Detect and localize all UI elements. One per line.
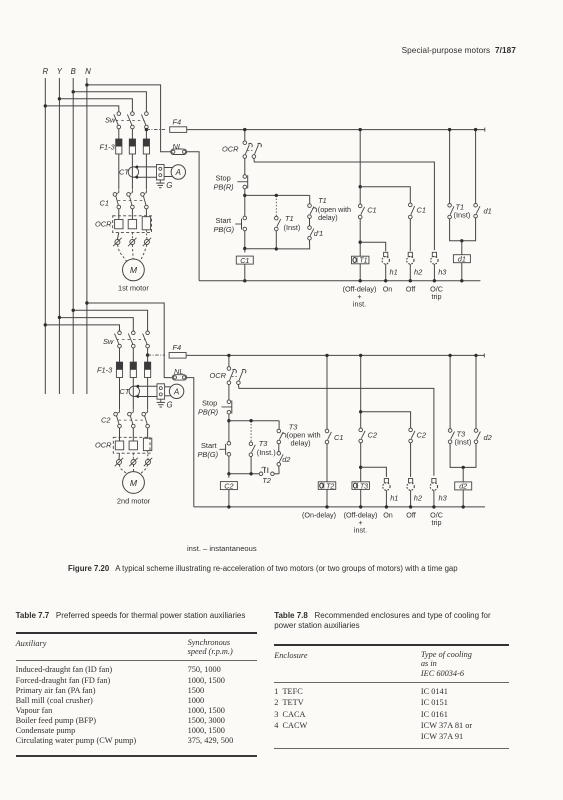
svg-text:h2: h2 <box>414 268 422 277</box>
svg-text:T1: T1 <box>359 258 367 265</box>
node seal-in top (circuit 1) <box>243 194 246 197</box>
svg-text:2nd motor: 2nd motor <box>117 497 151 506</box>
contact C1 aux for h2 (circuit 1) <box>409 203 413 207</box>
svg-text:delay): delay) <box>318 213 338 222</box>
node d2 coil top <box>462 466 465 469</box>
node T3 inst right top <box>448 354 451 357</box>
wire R tap (circuit 1) <box>45 106 119 112</box>
node F4 tap 2 <box>146 353 149 356</box>
svg-text:A: A <box>175 168 181 177</box>
wire delay branch (circuit 2) <box>278 421 280 430</box>
svg-text:C1: C1 <box>100 199 109 208</box>
svg-text:inst.: inst. <box>353 300 366 309</box>
svg-text:C2: C2 <box>101 415 110 424</box>
control bottom rail (circuit 1) <box>199 280 480 282</box>
svg-text:Sw: Sw <box>105 116 116 125</box>
svg-text:G: G <box>167 401 173 410</box>
svg-text:(Inst): (Inst) <box>454 211 471 220</box>
contact T1 (Inst) (circuit 1) <box>275 195 277 216</box>
svg-text:OCR: OCR <box>222 145 239 154</box>
timer coil T3 (circuit 2) <box>352 482 370 490</box>
contact T3 (Inst.) (circuit 2) <box>250 421 252 442</box>
contact C2 aux NO (circuit 2) <box>359 428 363 432</box>
svg-text:OCR: OCR <box>95 441 112 450</box>
node branch T3 inst top <box>249 419 252 422</box>
node d2 coil bottom <box>462 505 465 508</box>
svg-text:h3: h3 <box>439 494 448 503</box>
node top rail C1 branch <box>243 128 246 131</box>
fuse NL (circuit 1) <box>171 149 187 154</box>
node coil C1 bottom <box>243 279 246 282</box>
wire Stop to Start (circuit 1) <box>244 189 246 216</box>
wire seal-in top branch (circuit 1) <box>245 194 310 196</box>
pushbutton Start PB(G) (circuit 2) <box>227 442 231 446</box>
node T1 inst right top <box>448 128 451 131</box>
svg-text:M: M <box>130 265 138 275</box>
svg-text:T2: T2 <box>326 483 334 490</box>
svg-text:h1: h1 <box>390 268 398 277</box>
ammeter A (circuit 2) <box>165 386 171 388</box>
wire OCR to motor terminals (circuit 1) <box>117 233 118 240</box>
svg-text:d2: d2 <box>459 482 467 491</box>
svg-text:F1-3: F1-3 <box>97 366 113 375</box>
node d1 aux top <box>474 128 477 131</box>
relay coil d1 (circuit 1) <box>461 241 463 255</box>
fuse F1-3 (circuit 2) <box>116 362 122 377</box>
svg-text:C1: C1 <box>240 256 249 265</box>
OCR trip contact (circuit 2) <box>227 367 231 371</box>
svg-text:1st motor: 1st motor <box>118 284 149 293</box>
pushbutton Stop PB(R) (circuit 1) <box>243 175 247 179</box>
svg-text:OCR: OCR <box>210 371 227 380</box>
pushbutton Start PB(G) (circuit 1) <box>243 216 247 220</box>
contact T3 open-with-delay (circuit 2) <box>277 429 281 433</box>
motor leads (circuit 2) <box>117 460 122 465</box>
node T3 column mid <box>359 410 362 413</box>
wire to fuse F4 (circuit 2) <box>148 354 165 356</box>
node d1 coil top <box>460 239 463 242</box>
svg-text:CT: CT <box>120 387 130 396</box>
node timer column mid <box>359 185 362 188</box>
lamp h1 (circuit 2) <box>384 479 388 483</box>
wire Sw to fuses (circuit 1) <box>118 129 120 139</box>
svg-text:T3: T3 <box>360 483 368 490</box>
svg-text:C1: C1 <box>367 206 376 215</box>
svg-text:trip: trip <box>432 518 442 527</box>
lamp h2 (circuit 2) <box>410 443 412 477</box>
node timer T2 bottom <box>325 505 328 508</box>
overload relay OCR box (circuit 2) <box>113 437 150 453</box>
wire main branch (circuit 2) <box>228 355 230 366</box>
fuse F4 (circuit 1) <box>170 127 187 133</box>
ground G (circuit 2) <box>160 399 162 402</box>
wire R tap (circuit 2) <box>45 325 119 331</box>
svg-text:PB(R): PB(R) <box>198 407 219 416</box>
OCR trip contact (circuit 1) <box>243 141 247 145</box>
wire Sw to fuses (circuit 2) <box>119 348 121 362</box>
node C1 interlock top <box>325 354 328 357</box>
node branch T1 inst top <box>275 194 278 197</box>
contact C1 aux NO (circuit 1) <box>358 204 362 208</box>
motor M 1st <box>122 259 144 281</box>
svg-text:delay): delay) <box>291 439 311 448</box>
wire CT secondary (circuit 1) <box>133 166 156 168</box>
svg-text:trip: trip <box>432 292 442 301</box>
svg-text:OCR: OCR <box>95 220 112 229</box>
bus line Y <box>58 78 60 394</box>
motor M 2nd <box>123 472 145 494</box>
svg-text:T3: T3 <box>259 439 269 448</box>
svg-text:N: N <box>85 67 91 76</box>
wire T1 timer column (circuit 1) <box>359 130 361 205</box>
svg-text:PB(G): PB(G) <box>214 225 235 234</box>
node d2 aux top <box>474 354 477 357</box>
wire N tap to NL (circuit 2) <box>87 303 172 378</box>
svg-text:R: R <box>42 67 48 76</box>
CT current transformer (circuit 1) <box>128 167 138 177</box>
node seal-in top (circuit 2) <box>227 419 230 422</box>
node Y tap 1 <box>58 97 61 100</box>
overload relay OCR box (circuit 1) <box>113 216 152 233</box>
wire to fuse F4 (circuit 1) <box>146 129 165 131</box>
wire fuses down (circuit 2) <box>119 378 121 410</box>
svg-text:Start: Start <box>216 216 232 225</box>
wire fuses down (circuit 1) <box>118 154 120 189</box>
svg-text:Sw: Sw <box>103 337 114 346</box>
contact d1 aux (circuit 1) <box>475 130 477 204</box>
contactor C2 power poles <box>119 409 121 412</box>
node h1 tap (circuit 1) <box>359 241 362 244</box>
svg-text:(Inst): (Inst) <box>455 438 472 447</box>
node coil C2 bottom <box>227 505 230 508</box>
svg-text:F4: F4 <box>173 118 182 127</box>
ground G (circuit 1) <box>159 180 161 183</box>
wire seal-in bottom branch (circuit 1) <box>245 248 276 250</box>
switch Sw (circuit 2) <box>118 331 122 335</box>
lamp h1 (circuit 1) <box>384 252 388 256</box>
contact T1 open-with-delay (circuit 1) <box>308 204 312 208</box>
node N tap 1 <box>85 83 88 86</box>
svg-text:C1: C1 <box>334 433 343 442</box>
svg-text:Stop: Stop <box>216 173 231 182</box>
contact d&#39;2 (circuit 2) <box>278 444 280 452</box>
node R tap 2 <box>44 323 47 326</box>
svg-text:PB(G): PB(G) <box>198 450 219 459</box>
svg-text:T1: T1 <box>285 214 294 223</box>
wire B tap (circuit 2) <box>73 310 147 331</box>
motor leads (circuit 1) <box>115 240 120 245</box>
contactor C1 power poles <box>118 189 120 192</box>
node Y tap 2 <box>58 316 61 319</box>
node timer T1 bottom <box>359 279 362 282</box>
wire main branch (circuit 1) <box>244 130 246 141</box>
wire to lamp h1 (circuit 1) <box>360 242 386 251</box>
wire seal-in bottom branch (circuit 2) <box>229 473 259 475</box>
wire delay branch (circuit 1) <box>309 195 311 203</box>
wire Stop to Start (circuit 2) <box>228 414 230 442</box>
coil C2 (circuit 2) <box>220 482 237 490</box>
fuse F1-3 (circuit 1) <box>116 139 122 154</box>
wire Start to coil (circuit 2) <box>228 456 230 478</box>
wire delay branch bottom (circuit 1) <box>278 240 310 249</box>
node N tap 2 <box>85 301 88 304</box>
svg-text:B: B <box>71 67 76 76</box>
svg-text:NL: NL <box>173 142 182 151</box>
pushbutton Stop PB(R) (circuit 2) <box>227 400 231 404</box>
svg-text:C2: C2 <box>224 481 233 490</box>
wire OCR aux to h3 (circuit 1) <box>254 158 435 250</box>
svg-text:d2: d2 <box>484 433 492 442</box>
node h1 tap (circuit 2) <box>359 466 362 469</box>
control top rail (circuit 2) <box>186 354 484 356</box>
svg-text:(Inst.): (Inst.) <box>257 448 276 457</box>
node R tap 1 <box>44 104 47 107</box>
control top rail (circuit 1) <box>187 129 485 131</box>
wire seal-in top branch (circuit 2) <box>229 420 279 422</box>
svg-text:On: On <box>383 511 393 520</box>
svg-text:(Inst): (Inst) <box>284 223 301 232</box>
contact T3 (Inst) right (circuit 2) <box>449 355 451 428</box>
coil C1 (circuit 1) <box>236 256 253 264</box>
svg-text:A: A <box>173 387 179 396</box>
node B tap 1 <box>72 90 75 93</box>
svg-text:inst.: inst. <box>354 526 367 535</box>
node branch T3 inst bottom <box>249 472 252 475</box>
wire OCR to Stop (circuit 2) <box>228 385 230 401</box>
timer coil T1 (circuit 1) <box>351 256 369 264</box>
wire B tap (circuit 1) <box>73 92 146 112</box>
fuse NL (circuit 2) <box>172 375 186 380</box>
svg-text:h2: h2 <box>414 494 422 503</box>
svg-text:d1: d1 <box>484 207 492 216</box>
svg-text:T1: T1 <box>318 196 326 205</box>
wire CT secondary (circuit 2) <box>134 385 157 387</box>
contact T1 (Inst) right (circuit 1) <box>449 130 451 205</box>
svg-text:NL: NL <box>174 367 183 376</box>
wire Y tap (circuit 1) <box>59 99 132 112</box>
node F4 tap <box>145 128 148 131</box>
ammeter A (circuit 1) <box>164 167 172 169</box>
svg-text:C1: C1 <box>417 206 426 215</box>
svg-text:Stop: Stop <box>202 399 217 408</box>
timer coil T2 (circuit 2) <box>318 482 336 490</box>
wire N tap to NL (circuit 1) <box>87 85 171 152</box>
wire T3 timer column (circuit 2) <box>360 355 362 428</box>
svg-text:F1-3: F1-3 <box>100 143 116 152</box>
node branch T1 inst bottom <box>275 247 278 250</box>
CT current transformer (circuit 2) <box>129 386 139 396</box>
node timer T3 bottom <box>359 505 362 508</box>
svg-text:Off: Off <box>406 285 415 294</box>
wire to h2 column (circuit 2) <box>361 412 411 428</box>
wire OCR to motor terminals (circuit 2) <box>118 453 121 459</box>
relay coil d2 (circuit 2) <box>462 467 464 482</box>
switch Sw (circuit 1) <box>117 112 121 116</box>
wire C2 to OCR (circuit 2) <box>119 428 121 441</box>
svg-text:G: G <box>166 181 172 190</box>
fuse F4 (circuit 2) <box>169 353 186 359</box>
wire OCR to Stop (circuit 1) <box>244 158 246 174</box>
svg-text:Start: Start <box>201 441 217 450</box>
svg-text:Off: Off <box>406 511 415 520</box>
OCR aux contact (circuit 1) <box>252 155 256 159</box>
pushbutton contact T2 (circuit 2) <box>259 472 263 476</box>
lamp h3 (circuit 2) <box>432 479 436 483</box>
wire OCR aux to h3 (circuit 2) <box>238 385 434 476</box>
node timer column top <box>359 128 362 131</box>
control left rail (circuit 2) <box>187 378 194 507</box>
contact d2 aux (circuit 2) <box>475 355 477 428</box>
wire C1 to OCR (circuit 1) <box>118 209 120 220</box>
contact C2 aux for h2 (circuit 2) <box>409 428 413 432</box>
svg-text:Y: Y <box>57 67 63 76</box>
control left rail (circuit 1) <box>187 152 199 281</box>
meter test block (circuit 2) <box>157 384 165 399</box>
svg-text:C2: C2 <box>417 431 426 440</box>
node d1 coil bottom <box>460 279 463 282</box>
wire Start to coil (circuit 1) <box>244 231 246 253</box>
svg-text:On: On <box>383 285 393 294</box>
control bottom rail (circuit 2) <box>194 506 485 508</box>
contact d&#39;1 (circuit 1) <box>309 218 311 225</box>
contact C1 interlock column (circuit 2) <box>326 355 328 429</box>
bus line B <box>72 78 74 394</box>
bus line N <box>86 78 88 394</box>
svg-text:F4: F4 <box>173 343 182 352</box>
bus line R <box>44 78 46 394</box>
node seal-in bottom (circuit 2) <box>227 472 230 475</box>
meter test block (circuit 1) <box>157 165 165 180</box>
svg-text:PB(R): PB(R) <box>214 182 235 191</box>
wire delay branch bottom (circuit 2) <box>278 466 280 474</box>
wire Y tap (circuit 2) <box>59 318 133 332</box>
node top rail C2 branch <box>227 354 230 357</box>
svg-text:d'1: d'1 <box>314 229 323 238</box>
svg-text:d1: d1 <box>458 255 466 264</box>
wire to lamp h1 (circuit 2) <box>361 467 387 477</box>
svg-text:T2: T2 <box>262 476 271 485</box>
wire to h2 column (circuit 1) <box>360 187 410 203</box>
OCR aux contact (circuit 2) <box>237 381 241 385</box>
svg-text:h3: h3 <box>438 268 447 277</box>
node B tap 2 <box>72 309 75 312</box>
svg-text:M: M <box>130 478 138 488</box>
svg-text:(On-delay): (On-delay) <box>302 511 336 520</box>
node T3 column top <box>359 354 362 357</box>
lamp h3 (circuit 1) <box>432 252 436 256</box>
node seal-in bottom (circuit 1) <box>243 247 246 250</box>
svg-text:d2: d2 <box>282 455 290 464</box>
svg-text:h1: h1 <box>390 494 398 503</box>
svg-text:CT: CT <box>119 168 129 177</box>
svg-text:C2: C2 <box>368 431 377 440</box>
lamp h2 (circuit 1) <box>409 219 411 251</box>
